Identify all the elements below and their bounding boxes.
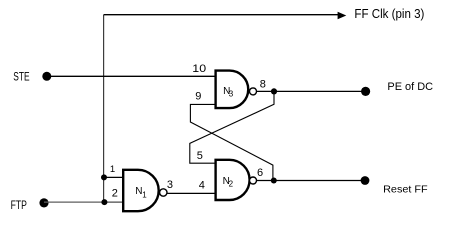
wire: vertical feedback line from top rail down to FTP line: [103, 15, 105, 202]
node junction dot N3 output: [271, 88, 277, 94]
svg-text:3: 3: [229, 90, 234, 99]
bubble N1 output: [160, 189, 167, 196]
svg-text:8: 8: [260, 79, 266, 91]
node PE of DC terminal dot: [361, 87, 370, 96]
wire: FTP to junction (gray): [44, 201, 104, 203]
svg-text:6: 6: [257, 167, 263, 179]
wire: branch to N1 input 1: [104, 176, 124, 178]
svg-text:FF Clk (pin 3): FF Clk (pin 3): [354, 6, 424, 21]
svg-text:Reset FF: Reset FF: [383, 184, 428, 196]
nand gate N2: [216, 160, 250, 200]
svg-text:5: 5: [197, 150, 203, 162]
svg-text:4: 4: [199, 179, 205, 191]
nand gate N3: [216, 71, 249, 109]
svg-text:PE of DC: PE of DC: [387, 81, 433, 93]
node FTP terminal dot: [39, 198, 48, 207]
svg-text:1: 1: [110, 164, 115, 175]
wire: top rail to FF Clk arrow: [104, 14, 339, 16]
node junction dot N2 output: [271, 178, 277, 184]
arrowhead FF Clk: [338, 12, 347, 20]
nand gate N1: [123, 170, 159, 211]
wire: N3 input 9 cross-couple to N2 output junction: [190, 104, 273, 180]
node STE terminal dot: [42, 72, 51, 81]
svg-text:10: 10: [192, 63, 206, 75]
svg-text:STE: STE: [13, 70, 29, 84]
svg-text:1: 1: [142, 190, 147, 199]
wire: STE to N3 input 10: [47, 75, 216, 77]
svg-text:9: 9: [195, 90, 201, 102]
wire: N3 output to PE of DC: [256, 90, 365, 92]
bubble N2 output: [250, 177, 257, 184]
wire: junction to N1 input 2: [104, 201, 124, 203]
node junction dot input 1: [101, 174, 107, 180]
wire: N1 output to N2 input 4: [167, 192, 214, 194]
wire: N3 output junction cross-couple to N2 input 5: [190, 91, 274, 163]
svg-text:FTP: FTP: [11, 198, 27, 212]
bubble N3 output: [250, 88, 257, 95]
svg-text:2: 2: [229, 180, 234, 189]
node Reset FF terminal dot: [361, 176, 370, 185]
node junction dot input 2: [101, 199, 107, 205]
wire: N2 output to Reset FF: [256, 180, 365, 182]
svg-text:2: 2: [112, 188, 118, 200]
svg-text:3: 3: [167, 179, 173, 191]
